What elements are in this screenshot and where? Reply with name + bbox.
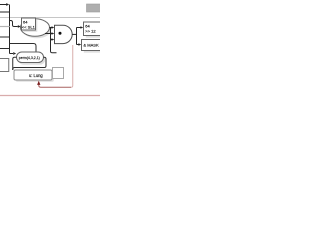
wire: left input y=4.5 — [0, 4, 7, 6]
arrowhead on y=4.5 wire — [6, 3, 9, 6]
collapsed gray group box (top right, cut off) — [87, 4, 102, 12]
wire: perm output loop to u:Lung box — [13, 57, 46, 70]
arrowhead into shift-right box — [80, 26, 83, 29]
wire: left input y=37 — [0, 36, 10, 38]
red arrowhead into u:Lung bottom — [37, 81, 40, 85]
AND gate body — [55, 25, 73, 43]
arrowhead gate input 1 — [52, 26, 55, 29]
arrowhead into perm stadium — [13, 52, 16, 55]
u:Lung box shadow — [16, 72, 54, 82]
svg-text:u: Lung: u: Lung — [29, 73, 43, 78]
wire: to shift-right box — [77, 27, 81, 29]
container boundary line (top band) — [0, 17, 100, 19]
shifter rect shadow — [23, 20, 37, 32]
svg-text:<< SL1: << SL1 — [22, 24, 36, 29]
arrowhead gate input 2 — [52, 32, 55, 35]
wire: to mask box — [77, 44, 79, 46]
svg-text:64: 64 — [85, 23, 90, 28]
svg-text:>> 12: >> 12 — [85, 29, 96, 34]
perm stadium — [17, 52, 44, 63]
wire: left input bus vertical — [9, 5, 11, 54]
arrowhead into mask box — [78, 43, 81, 46]
wire: left input y=12 — [0, 11, 10, 13]
arrowhead into shifter box — [18, 25, 21, 28]
pink container top edge (bottom of image) — [0, 95, 100, 97]
shifter rect SL1 — [22, 18, 36, 30]
svg-text:& MASK: & MASK — [83, 43, 99, 48]
wire: bus to perm stadium — [10, 53, 14, 55]
ellipse shadow — [22, 21, 51, 38]
arrowhead gate input 3 — [52, 38, 55, 41]
ellipse (shift node) — [21, 19, 50, 36]
dot operator inside gate — [59, 32, 62, 35]
shift-right box shadow — [86, 24, 102, 38]
empty box bottom middle — [53, 68, 64, 79]
u:Lung box — [14, 70, 52, 80]
wire: left input y=48.5 — [0, 48, 10, 50]
wire: bus to shifter box (staircase) — [10, 21, 18, 27]
svg-text:perm(4,3,2,1): perm(4,3,2,1) — [19, 56, 40, 60]
perm stadium shadow — [18, 54, 45, 64]
red wire horizontal run — [39, 85, 71, 88]
gate input stub 2 — [51, 33, 53, 35]
wire: perm left tip down to u:Lung box — [13, 57, 17, 70]
wire: output junction vertical — [76, 28, 78, 45]
left register box (cut off at left edge) — [0, 59, 9, 72]
gate input stub 1 — [51, 27, 53, 29]
red wire from mask input down to u:Lung — [71, 45, 73, 87]
wire: ellipse output to gate inputs — [45, 28, 57, 53]
mask box & MASK — [82, 40, 102, 51]
wire: light left input y=26.5 — [0, 26, 10, 28]
background — [0, 0, 100, 100]
shift-right box 64 >> 12 — [84, 22, 102, 36]
wire: bus to ellipse top input — [10, 44, 37, 53]
mask box shadow — [84, 42, 102, 53]
wire: gate output — [72, 33, 76, 35]
gate input stub 3 — [51, 39, 53, 41]
